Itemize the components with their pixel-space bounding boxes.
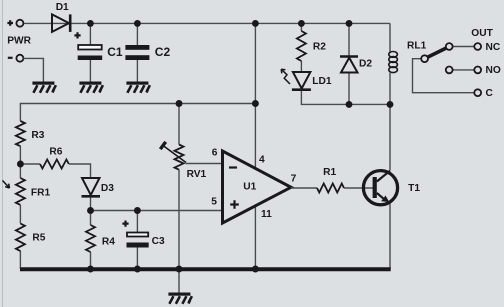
svg-text:5: 5 bbox=[211, 196, 217, 207]
op-amp plus sign bbox=[230, 200, 239, 209]
svg-text:FR1: FR1 bbox=[31, 187, 51, 198]
svg-text:R3: R3 bbox=[31, 130, 44, 141]
svg-text:T1: T1 bbox=[408, 183, 420, 194]
wire minus terminal to ground bbox=[23, 58, 43, 81]
ground (bus) bbox=[168, 293, 192, 304]
svg-text:U1: U1 bbox=[243, 182, 256, 193]
ground (C2) bbox=[126, 82, 149, 93]
node C terminal bbox=[474, 89, 481, 96]
wire bus ground stem bbox=[178, 269, 180, 293]
svg-text:R1: R1 bbox=[323, 167, 336, 178]
svg-text:C2: C2 bbox=[155, 45, 171, 59]
scan edge artifact bbox=[2, 0, 4, 307]
wire R2 column bbox=[300, 23, 302, 31]
wire top rail bbox=[23, 22, 390, 24]
svg-text:7: 7 bbox=[291, 173, 297, 184]
svg-text:D2: D2 bbox=[359, 58, 372, 69]
wire C1 stems bbox=[89, 23, 91, 81]
LED LD1 bbox=[292, 72, 311, 90]
trimmer RV1 bbox=[175, 145, 184, 170]
resistor R5 bbox=[16, 224, 25, 252]
ground (C1) bbox=[79, 82, 103, 93]
wire FR1 to R5 bbox=[19, 205, 21, 224]
svg-text:NO: NO bbox=[486, 65, 501, 76]
minus sign PWR bbox=[8, 57, 13, 59]
node NO terminal bbox=[474, 67, 481, 74]
transistor T1 bbox=[363, 171, 397, 205]
wire pin11 column bbox=[254, 206, 256, 269]
op-amp minus sign bbox=[229, 166, 237, 168]
node NO contact bbox=[446, 67, 453, 74]
wire arm to NC terminal bbox=[452, 46, 474, 48]
svg-text:4: 4 bbox=[259, 154, 265, 165]
wire coil bottom to collector bbox=[389, 73, 391, 171]
op-amp U1 bbox=[223, 151, 292, 223]
svg-text:D1: D1 bbox=[56, 2, 69, 13]
capacitor C3 bbox=[127, 233, 149, 248]
resistor R6 bbox=[40, 160, 69, 169]
svg-text:RV1: RV1 bbox=[187, 169, 207, 180]
node arm NC bbox=[446, 43, 453, 50]
wire D3 to node bbox=[90, 198, 92, 211]
svg-text:C3: C3 bbox=[152, 236, 165, 247]
wire relay coil feed bbox=[389, 23, 391, 52]
resistor R1 bbox=[317, 184, 344, 193]
resistor R3 bbox=[16, 121, 25, 146]
wire node to R6 bbox=[20, 163, 40, 165]
svg-text:11: 11 bbox=[261, 209, 272, 220]
svg-text:R6: R6 bbox=[49, 147, 62, 158]
ground (minus terminal) bbox=[32, 82, 56, 93]
wire common to C bbox=[413, 59, 475, 93]
wire mid rail bbox=[20, 104, 255, 122]
resistor R2 bbox=[297, 31, 306, 61]
wire LD1 bottom row bbox=[301, 91, 390, 105]
svg-text:NC: NC bbox=[486, 42, 501, 53]
node - terminal PWR bbox=[16, 55, 23, 62]
svg-text:PWR: PWR bbox=[7, 35, 31, 46]
node NC terminal bbox=[474, 43, 481, 50]
svg-text:R2: R2 bbox=[313, 42, 326, 53]
svg-text:LD1: LD1 bbox=[312, 76, 332, 87]
wire C2 stems bbox=[136, 23, 138, 81]
wire RV1 column top bbox=[178, 104, 180, 145]
wire R4 stems bbox=[90, 211, 92, 270]
wire pin4 column bbox=[254, 23, 256, 168]
wire R3 to node bbox=[19, 146, 21, 178]
wire pin5 row bbox=[91, 210, 223, 212]
diode D3 bbox=[82, 178, 101, 196]
svg-text:R4: R4 bbox=[102, 237, 115, 248]
svg-text:D3: D3 bbox=[101, 183, 114, 194]
wire NO to terminal bbox=[452, 69, 474, 71]
svg-text:RL1: RL1 bbox=[407, 41, 427, 52]
resistor FR1 bbox=[16, 178, 25, 205]
wire R1 to base bbox=[344, 187, 373, 189]
relay arm bbox=[427, 48, 447, 58]
diode D2 bbox=[340, 57, 358, 73]
relay RL1 contacts bbox=[413, 43, 482, 96]
node + terminal PWR bbox=[16, 20, 23, 27]
resistor R4 bbox=[86, 225, 95, 252]
ground bus bbox=[20, 267, 391, 271]
svg-text:C: C bbox=[486, 88, 494, 99]
svg-text:R5: R5 bbox=[32, 232, 45, 243]
svg-text:C1: C1 bbox=[107, 45, 123, 59]
wire RV1 wiper to pin6 bbox=[186, 163, 223, 165]
wire emitter to bus bbox=[389, 204, 391, 269]
plus sign PWR bbox=[7, 20, 13, 26]
wire C3 stems bbox=[136, 211, 138, 270]
wire output pin7 bbox=[291, 187, 317, 189]
arrow FR1 light bbox=[3, 181, 10, 189]
wire RV1 bottom to bus bbox=[178, 170, 180, 270]
plus sign C3 bbox=[122, 221, 128, 227]
capacitor C2 bbox=[125, 45, 149, 60]
plus sign C1 bbox=[74, 32, 80, 38]
relay coil RL1 bbox=[389, 52, 398, 73]
trimmer RV1 arm bbox=[160, 142, 186, 163]
diode D1 bbox=[52, 14, 70, 32]
capacitor C1 bbox=[78, 45, 103, 60]
svg-text:OUT: OUT bbox=[471, 28, 493, 39]
wire D2 column bbox=[348, 23, 350, 104]
svg-text:6: 6 bbox=[212, 148, 218, 159]
wire R5 to bus bbox=[19, 251, 21, 269]
wire R2 to LD1 bbox=[300, 61, 302, 72]
arrow LD1 light bbox=[281, 69, 290, 84]
wire R6 to D3 bbox=[69, 164, 91, 178]
node pivot bbox=[421, 55, 428, 62]
